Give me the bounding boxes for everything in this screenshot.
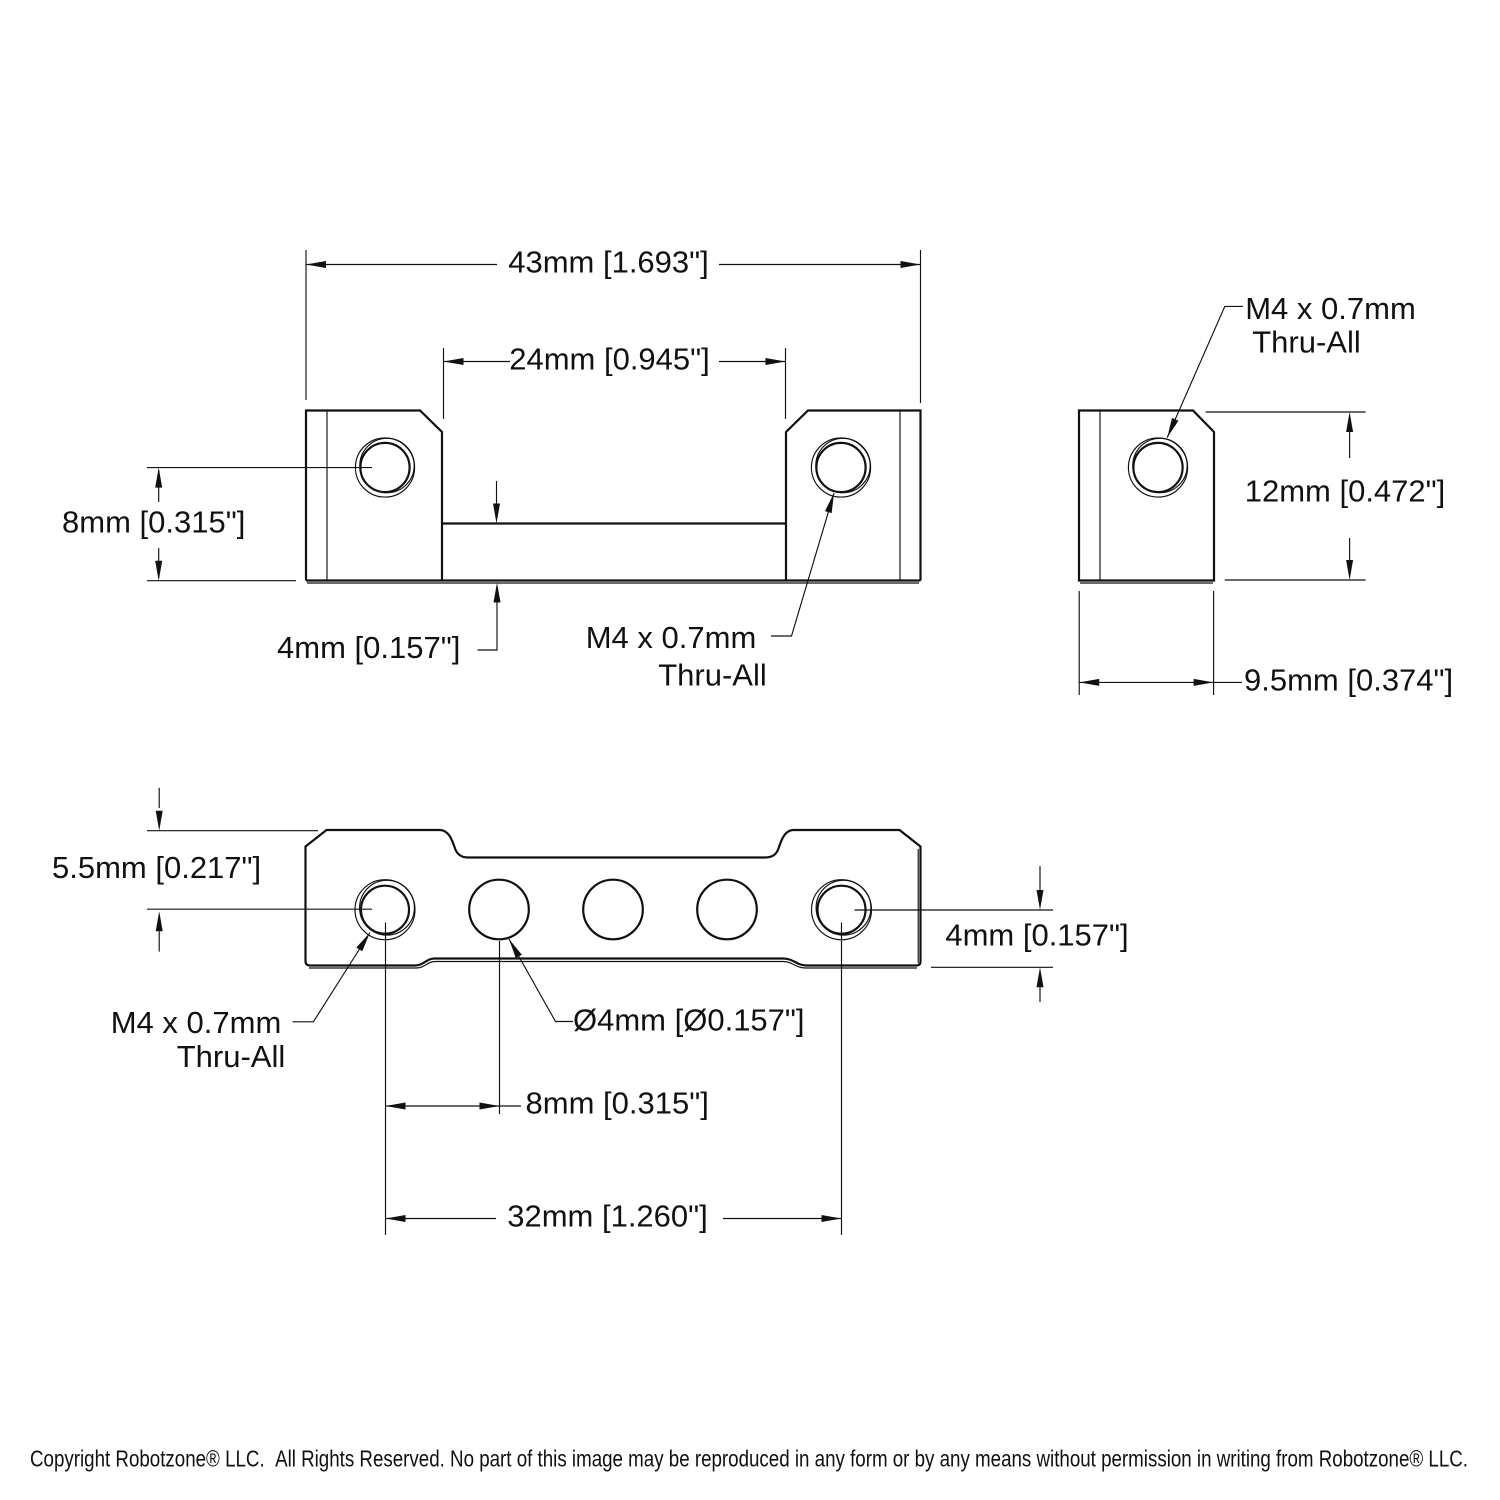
label diameter 4mm leader arrowhead	[509, 939, 522, 958]
svg-text:43mm [1.693"]: 43mm [1.693"]	[508, 245, 709, 280]
bottom view hole 5 inner circle	[818, 886, 866, 934]
front view right block chamfer edge line	[899, 411, 901, 581]
dim 24mm line left segment	[444, 361, 511, 363]
svg-text:9.5mm [0.374"]: 9.5mm [0.374"]	[1244, 663, 1453, 698]
dim 9.5mm extension line right	[1213, 591, 1215, 695]
dim 32mm arrow left	[386, 1215, 406, 1222]
dim 4mm front upper arrow	[493, 504, 500, 524]
dim 8mm bottom line	[386, 1105, 522, 1107]
front view left hole eccentric thread arc	[360, 438, 414, 492]
svg-text:M4 x 0.7mm: M4 x 0.7mm	[586, 620, 757, 655]
dim 43mm extension line left	[305, 250, 307, 400]
dim 9.5mm arrow right	[1194, 679, 1214, 686]
dim 32mm line left segment	[386, 1218, 497, 1220]
dim 4mm front upper arrow stem	[496, 481, 498, 504]
svg-text:12mm [0.472"]: 12mm [0.472"]	[1245, 474, 1446, 509]
dim 5.5mm lower arrow	[156, 911, 163, 931]
bottom view right edge inner thin line	[917, 849, 919, 963]
dim 43mm extension line right	[920, 250, 922, 403]
dim 43mm arrow left	[306, 261, 326, 268]
svg-text:8mm [0.315"]: 8mm [0.315"]	[526, 1086, 709, 1121]
dim 12mm lower extension line	[1225, 579, 1366, 581]
bottom view hole 1 eccentric thread arc	[360, 880, 415, 935]
dim 24mm extension line left	[443, 348, 445, 419]
label M4 side leader	[1167, 306, 1243, 437]
bottom view hole 5 M4 outer thread circle	[812, 880, 872, 940]
dim 12mm arrow down	[1346, 560, 1353, 580]
dim 4mm front lower arrow	[494, 583, 501, 603]
dim 32mm extension line hole5	[841, 923, 843, 1236]
dim 4mm front leader stem	[478, 602, 498, 650]
label M4 bottom leader arrowhead	[356, 933, 370, 952]
front view right hole M4 outer thread circle	[811, 438, 870, 497]
dim 9.5mm line	[1079, 681, 1242, 683]
front view bar top edge	[442, 522, 786, 524]
bottom view hole 4	[697, 880, 757, 940]
dim 8mm front line lower segment	[158, 548, 160, 578]
side view hole eccentric thread arc	[1133, 438, 1187, 492]
label diameter 4mm leader	[509, 939, 573, 1022]
dim 43mm line left segment	[306, 264, 497, 266]
dim 12mm upper extension line	[1206, 411, 1366, 413]
bottom view hole 1 M4 outer thread circle	[355, 880, 415, 940]
dim 8mm front arrow down	[155, 561, 162, 581]
svg-text:4mm [0.157"]: 4mm [0.157"]	[945, 918, 1128, 953]
dim 24mm line right segment	[719, 361, 786, 363]
dim 4mm right lower arrow stem	[1039, 987, 1041, 1002]
front view bottom tangent thin line	[307, 582, 919, 584]
dim 4mm right upper arrow	[1037, 890, 1044, 910]
dim 8mm bottom extension line hole2	[499, 941, 501, 1114]
svg-text:Thru-All: Thru-All	[177, 1039, 286, 1074]
svg-text:32mm [1.260"]: 32mm [1.260"]	[507, 1199, 708, 1234]
dim 5.5mm upper arrow	[156, 811, 163, 831]
dim 12mm line upper segment	[1349, 432, 1351, 458]
dim 4mm right upper arrow stem	[1039, 866, 1041, 890]
dim 24mm extension line right	[785, 348, 787, 419]
front view left hole inner circle	[360, 443, 409, 492]
side view chamfer edge line	[1099, 411, 1101, 581]
dim 32mm arrow right	[822, 1215, 842, 1222]
dim 43mm line right segment	[719, 264, 921, 266]
bottom view hole 3	[583, 880, 643, 940]
front view left hole M4 outer thread circle	[355, 438, 414, 497]
svg-text:M4 x 0.7mm: M4 x 0.7mm	[111, 1005, 282, 1040]
dim 5.5mm lower arrow stem	[158, 931, 160, 951]
svg-text:M4 x 0.7mm: M4 x 0.7mm	[1245, 291, 1416, 326]
dim 4mm right lower extension line	[931, 966, 1053, 968]
svg-text:24mm [0.945"]: 24mm [0.945"]	[509, 342, 710, 377]
dim 8mm front arrow up	[155, 468, 162, 488]
dim 32mm extension line hole1	[385, 923, 387, 1236]
dim 12mm arrow up	[1346, 412, 1353, 432]
dim 24mm arrow right	[766, 358, 786, 365]
front view left block outline	[306, 411, 442, 581]
label M4 front leader arrowhead	[825, 493, 834, 513]
dim 9.5mm extension line left	[1078, 591, 1080, 695]
front view left block chamfer edge line	[326, 411, 328, 581]
dim 8mm front line upper segment	[158, 470, 160, 502]
front view bottom edge	[306, 579, 921, 581]
bottom view bottom chamfer edge thin line	[309, 962, 917, 969]
label M4 bottom leader	[293, 933, 370, 1022]
dim 8mm bottom arrow right	[480, 1103, 500, 1110]
dim 8mm front upper extension line to hole center	[147, 467, 372, 469]
label M4 front leader	[771, 493, 834, 636]
bottom view outline	[306, 830, 921, 966]
dim 5.5mm upper arrow stem	[158, 788, 160, 808]
side view hole inner circle	[1133, 443, 1182, 492]
bottom view hole 5 eccentric thread arc	[816, 880, 871, 935]
side view outline	[1079, 411, 1214, 581]
svg-text:Thru-All: Thru-All	[1252, 325, 1361, 360]
dim 4mm right lower arrow	[1037, 967, 1044, 987]
dim 43mm arrow right	[901, 261, 921, 268]
dim 8mm bottom arrow left	[386, 1103, 406, 1110]
side view bottom tangent thin line	[1080, 582, 1213, 584]
svg-text:5.5mm [0.217"]: 5.5mm [0.217"]	[52, 850, 261, 885]
svg-text:8mm [0.315"]: 8mm [0.315"]	[62, 505, 245, 540]
svg-text:Ø4mm [Ø0.157"]: Ø4mm [Ø0.157"]	[573, 1003, 805, 1038]
front view right hole inner circle	[816, 443, 865, 492]
svg-text:4mm [0.157"]: 4mm [0.157"]	[277, 630, 460, 665]
dim 9.5mm arrow left	[1079, 679, 1099, 686]
bottom view hole 1 inner circle	[361, 886, 409, 934]
dim 24mm arrow left	[444, 358, 464, 365]
dim 12mm line lower segment	[1349, 538, 1351, 560]
front view right block outline	[786, 411, 921, 581]
dim 32mm line right segment	[723, 1218, 842, 1220]
side view hole M4 outer thread circle	[1128, 438, 1187, 497]
svg-text:Copyright Robotzone® LLC. All: Copyright Robotzone® LLC. All Rights Res…	[30, 1446, 1468, 1472]
bottom view hole 2	[469, 880, 529, 940]
front view right hole eccentric thread arc	[816, 438, 870, 492]
label M4 side leader arrowhead	[1167, 418, 1178, 438]
dim 5.5mm upper extension line	[147, 830, 318, 832]
dim 8mm front lower extension line	[147, 580, 296, 582]
dim 5.5mm center extension line	[147, 908, 372, 910]
dim 4mm right upper extension line	[855, 909, 1054, 911]
svg-text:Thru-All: Thru-All	[658, 658, 767, 693]
